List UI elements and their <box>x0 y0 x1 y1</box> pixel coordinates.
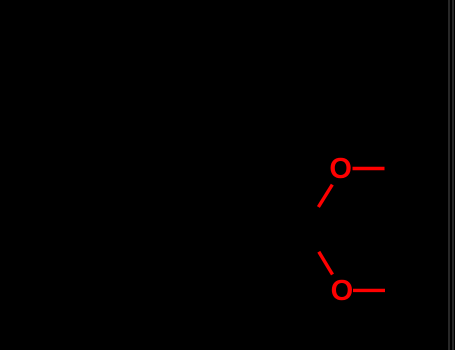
ring bond C2-C3 <box>103 102 218 156</box>
ring bond C6-C1 <box>226 224 283 265</box>
bond O-CH3 bottom oxygen half <box>353 289 385 292</box>
bond CH-O bottom carbon half <box>304 230 319 252</box>
bond CH-O top oxygen half <box>318 185 332 207</box>
bond O-CH3 top oxygen half <box>353 167 385 170</box>
bond O-CH3 top carbon half <box>385 167 421 170</box>
double bond C2=C1 inner line <box>207 116 243 184</box>
ring bond C4-C5 <box>103 226 156 289</box>
bond C7-CH3 methyl right <box>218 57 250 100</box>
bond CH-O bottom oxygen half <box>319 252 333 275</box>
svg-text:O: O <box>331 275 354 307</box>
double bond C2=C1 main line <box>218 102 283 224</box>
ring bond C3-C4 <box>102 156 105 226</box>
ring bond C5-C6 <box>156 264 226 289</box>
bond C7-CH3 methyl left <box>191 57 218 100</box>
wire marker right inner <box>448 0 450 350</box>
bond C1-CH acetal <box>283 224 304 231</box>
bond O-CH3 bottom carbon half <box>385 289 420 292</box>
svg-text:O: O <box>329 153 352 185</box>
wire marker right outer <box>452 0 454 350</box>
bond CH-O top carbon half <box>304 207 318 230</box>
